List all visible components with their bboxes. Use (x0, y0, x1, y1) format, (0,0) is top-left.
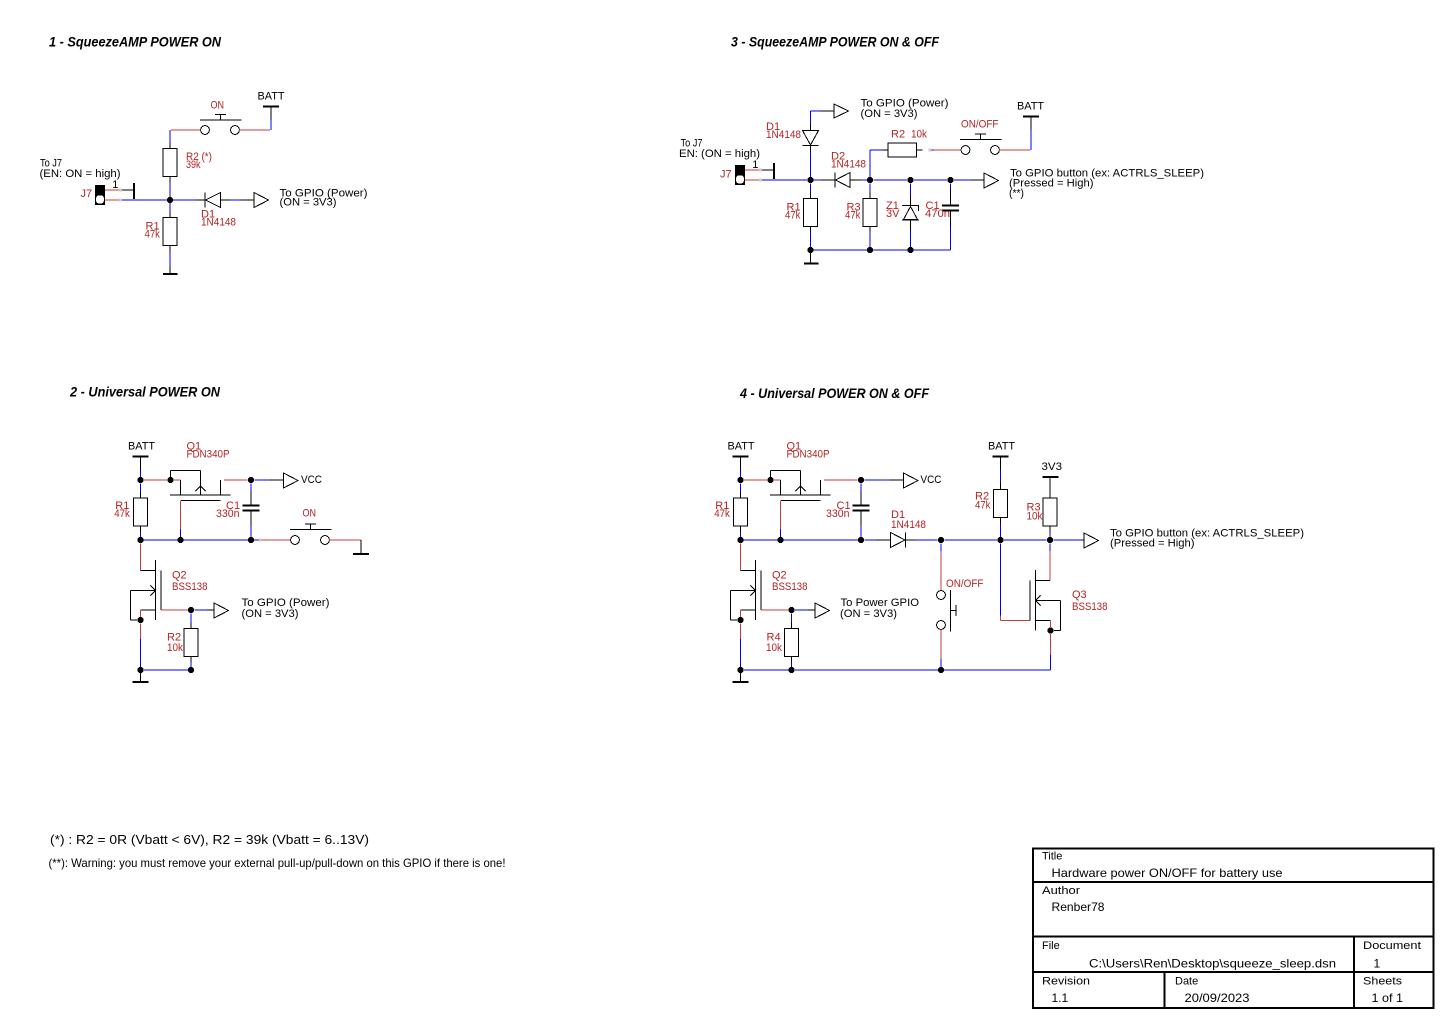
svg-text:470n: 470n (925, 208, 950, 220)
pushbutton ON/OFF (circuit 4) (937, 590, 956, 632)
svg-text:1N4148: 1N4148 (891, 519, 926, 531)
junction gate node (circuit 2) (167, 477, 173, 483)
wire R2 node down to Q3 gate (1001, 544, 1031, 621)
svg-text:FDN340P: FDN340P (187, 449, 230, 461)
node bottom left (circuit 4) (737, 667, 743, 673)
svg-text:1.1: 1.1 (1052, 991, 1069, 1005)
svg-text:BATT: BATT (258, 91, 285, 103)
node bottom (circuit 2) (137, 667, 143, 673)
label D1 (201, 209, 236, 229)
svg-text:1 of 1: 1 of 1 (1372, 991, 1404, 1005)
label D1 (circuit 3) (766, 121, 801, 141)
svg-text:1N4148: 1N4148 (766, 129, 801, 141)
wire Q1 source down to rail (180, 501, 182, 538)
connector J7 (circuit 3) (735, 165, 745, 185)
ground rail (circuit 3) (807, 247, 950, 253)
svg-text:VCC: VCC (301, 474, 322, 486)
svg-text:47k: 47k (714, 508, 730, 520)
pin 1 of J7 (105, 179, 134, 199)
svg-text:(**): (**) (1009, 188, 1024, 200)
label R2 (*) (186, 151, 212, 171)
wire node C to Z1 (910, 184, 912, 206)
wire node to R1 (169, 203, 171, 212)
pushbutton ON SW1 (171, 115, 270, 135)
svg-text:Sheets: Sheets (1363, 975, 1403, 987)
power BATT right (circuit 4) (988, 441, 1015, 483)
junction gate node (circuit 4) (767, 477, 773, 483)
resistor R4 (circuit 4) (785, 623, 799, 663)
pin 2 of J7 (circuit 3) (745, 179, 762, 182)
output port To GPIO (circuit 1) (254, 187, 368, 208)
transistor Q3 BSS138 (circuit 4) (1030, 570, 1061, 631)
svg-text:VCC: VCC (921, 474, 942, 486)
svg-text:2 - Universal POWER ON: 2 - Universal POWER ON (69, 383, 221, 399)
title block Title row (1042, 850, 1283, 880)
power BATT left (circuit 4) (728, 441, 755, 477)
resistor R1 (circuit 1) (163, 212, 177, 252)
bus wire right (circuit 4) (1004, 539, 1047, 541)
wire R3 to bus (circuit 4) (1049, 532, 1051, 537)
node R2 bottom (circuit 4) (997, 537, 1003, 543)
label R3 10k (circuit 4) (1027, 501, 1043, 522)
svg-text:Q2: Q2 (772, 569, 787, 581)
wire rail to Q2 gate (140, 544, 142, 571)
resistor R2 (163, 143, 177, 183)
wire Q3 source to bottom rail (1050, 634, 1052, 670)
node BATT (circuit 4) (737, 477, 743, 483)
wire output node to R2 (circuit 2) (190, 614, 192, 623)
resistor R2 (circuit 4) (994, 483, 1008, 537)
svg-text:47k: 47k (114, 508, 130, 520)
wire Q1 source down to bus (circuit 4) (780, 501, 782, 538)
svg-text:EN: (ON = high): EN: (ON = high) (679, 148, 760, 160)
svg-text:BSS138: BSS138 (772, 581, 808, 593)
wire C1 to rail (950, 212, 952, 251)
wire node B to node C (874, 179, 908, 181)
label R1 (circuit 4) (714, 500, 730, 520)
label R4 10k (circuit 4) (766, 632, 782, 655)
svg-text:10k: 10k (766, 642, 782, 654)
wire node A to D2 (814, 179, 836, 181)
note (*) resistor values (50, 832, 369, 847)
svg-text:20/09/2023: 20/09/2023 (1185, 991, 1250, 1005)
wire C1 to rail (circuit 2) (250, 512, 252, 538)
node Q2 source (circuit 2) (137, 617, 143, 623)
svg-text:1: 1 (112, 179, 118, 191)
svg-text:47k: 47k (145, 229, 161, 241)
label To J7 (40, 158, 121, 181)
node C (907, 177, 913, 183)
svg-text:330n: 330n (826, 508, 850, 520)
connector J7 (95, 185, 105, 205)
wire J7 to node A (762, 179, 807, 181)
capacitor C1 (circuit 2) (243, 506, 260, 511)
pushbutton ON (circuit 2) (262, 524, 362, 544)
svg-text:(EN: ON = high): (EN: ON = high) (40, 168, 121, 180)
wire VCC node to D1 (circuit 4) (865, 539, 891, 541)
svg-text:To GPIO (Power): To GPIO (Power) (242, 597, 330, 609)
title block Author row (1042, 885, 1105, 914)
diode D2 (835, 173, 850, 188)
svg-text:(*) : R2 = 0R (Vbatt < 6V), R2: (*) : R2 = 0R (Vbatt < 6V), R2 = 39k (Vb… (50, 832, 369, 847)
svg-text:J7: J7 (81, 188, 93, 200)
node output (circuit 2) (188, 607, 194, 613)
svg-text:Document: Document (1363, 940, 1421, 952)
pin 2 of J7 (105, 199, 122, 202)
wire R2 to node (169, 183, 171, 201)
power BATT (circuit 2) (128, 441, 155, 477)
label C1 330n (circuit 2) (216, 500, 240, 520)
wire R4 to bottom rail (circuit 4) (744, 663, 795, 674)
svg-text:Author: Author (1042, 885, 1080, 897)
svg-text:BSS138: BSS138 (172, 581, 208, 593)
resistor R2 (circuit 3) (882, 143, 923, 157)
label R2 10k (891, 129, 927, 141)
svg-text:File: File (1042, 940, 1060, 952)
output port To GPIO Power (circuit 3) (834, 98, 949, 120)
wire node D to C1 (950, 184, 952, 205)
zener diode Z1 (902, 206, 919, 221)
svg-text:R2: R2 (891, 129, 905, 141)
ground (circuit 1) (163, 273, 178, 275)
capacitor C1 (circuit 3) (942, 206, 959, 211)
svg-text:330n: 330n (216, 508, 240, 520)
label J7 (circuit 3) (720, 168, 732, 180)
svg-text:1N4148: 1N4148 (831, 159, 866, 171)
wire R1 to rail (circuit 3) (810, 233, 812, 251)
pin 1 of J7 (circuit 3) (745, 159, 774, 179)
wire node C to node D (914, 179, 947, 181)
wire node B to R3 (869, 184, 871, 193)
label To J7 (circuit 3) (679, 137, 760, 160)
label ON/OFF (circuit 3) (961, 119, 999, 131)
wire Q1 drain to VCC node (circuit 4) (824, 479, 858, 481)
heading circuit 2 (69, 383, 221, 399)
ground (circuit 4) (733, 673, 749, 682)
svg-text:C:\Users\Ren\Desktop\squeeze_s: C:\Users\Ren\Desktop\squeeze_sleep.dsn (1089, 957, 1336, 971)
svg-text:47k: 47k (785, 210, 801, 222)
node output (circuit 4) (788, 607, 794, 613)
label C1 470n (925, 200, 950, 220)
wire Q2 source to bottom rail (circuit 4) (740, 624, 742, 668)
wire D2 to node B (850, 179, 867, 181)
label R1 (circuit 3) (785, 202, 801, 222)
heading circuit 1 (49, 33, 222, 49)
svg-text:BSS138: BSS138 (1072, 601, 1108, 613)
wire R1 to bus (circuit 4) (740, 532, 742, 537)
svg-text:10k: 10k (1027, 511, 1043, 523)
svg-text:BATT: BATT (988, 441, 1015, 453)
wire BATT to Q1 (144, 479, 167, 481)
svg-text:39k: 39k (186, 159, 201, 171)
svg-text:(**): Warning: you must remove: (**): Warning: you must remove your exte… (49, 856, 506, 870)
label R2 10k (circuit 2) (167, 632, 183, 655)
svg-text:1: 1 (1374, 957, 1381, 971)
svg-text:10k: 10k (167, 642, 183, 654)
wire R1 to rail (circuit 2) (140, 532, 142, 537)
wire D1 to node A (810, 146, 812, 178)
svg-text:3V3: 3V3 (1042, 461, 1063, 473)
svg-text:ON: ON (303, 507, 317, 519)
power BATT (circuit 3) (1017, 101, 1044, 150)
svg-text:BATT: BATT (728, 441, 755, 453)
node Q2 source (circuit 4) (737, 617, 743, 623)
node Q3 source (circuit 4) (1047, 627, 1053, 633)
svg-text:47k: 47k (975, 500, 991, 512)
transistor Q2 BSS138 (circuit 4) (731, 560, 762, 620)
label Q3 (circuit 4) (1072, 589, 1108, 613)
transistor Q2 BSS138 (circuit 2) (131, 560, 162, 620)
wire R2 to switch (929, 149, 934, 152)
label ON (circuit 2) (303, 507, 317, 519)
label R1 (145, 221, 161, 241)
wire R3 node down to Q3 (1049, 544, 1051, 581)
svg-text:(ON = 3V3): (ON = 3V3) (840, 608, 897, 620)
bottom rail (circuit 4) (795, 667, 1051, 673)
label R1 (circuit 2) (114, 500, 130, 520)
wire J7 to node (122, 199, 167, 201)
title block frame (1033, 849, 1434, 1009)
svg-text:Date: Date (1175, 975, 1198, 987)
svg-text:(ON = 3V3): (ON = 3V3) (280, 196, 337, 208)
note (**) warning (49, 856, 506, 870)
svg-text:Q2: Q2 (172, 569, 187, 581)
resistor R3 (863, 193, 877, 233)
wire VCC node to C1 (circuit 2) (250, 484, 252, 505)
svg-text:Title: Title (1042, 850, 1062, 862)
pushbutton ON/OFF (circuit 3) (934, 134, 1031, 154)
resistor R2 (circuit 2) (184, 623, 198, 663)
svg-text:J7: J7 (720, 168, 732, 180)
wire C1 to bus (circuit 4) (860, 512, 862, 538)
svg-text:1: 1 (752, 159, 758, 171)
wire BATT to Q1 (circuit 4) (744, 479, 767, 481)
svg-text:(ON = 3V3): (ON = 3V3) (861, 108, 918, 120)
power 3V3 (circuit 4) (1042, 461, 1063, 492)
transistor Q1 FDN340P (circuit 2) (170, 471, 231, 501)
wire Q1 drain to VCC node (224, 479, 248, 481)
power BATT (circuit 1) (258, 91, 285, 130)
wire switch node down (circuit 4) (940, 544, 942, 591)
svg-text:Renber78: Renber78 (1052, 900, 1105, 914)
transistor Q1 FDN340P (circuit 4) (770, 471, 831, 501)
output port To Power GPIO (circuit 4) (795, 597, 919, 620)
wire Z1 to rail (910, 220, 912, 250)
wire switch to bottom rail (circuit 4) (940, 629, 942, 667)
output port VCC (circuit 2) (255, 473, 323, 488)
output port VCC (circuit 4) (865, 473, 942, 488)
ground (circuit 2) (133, 673, 149, 682)
label Q2 (circuit 2) (172, 569, 208, 592)
svg-text:1 - SqueezeAMP POWER ON: 1 - SqueezeAMP POWER ON (49, 33, 222, 49)
svg-text:ON/OFF: ON/OFF (946, 578, 984, 590)
resistor R1 (circuit 4) (734, 484, 748, 533)
svg-text:ON: ON (211, 99, 225, 111)
wire Q2 drain to output node (circuit 4) (761, 609, 788, 611)
title block File row (1042, 940, 1421, 971)
node R3 bottom (circuit 4) (1047, 537, 1053, 543)
label Q1 (circuit 2) (187, 441, 230, 461)
svg-text:Hardware power ON/OFF for batt: Hardware power ON/OFF for battery use (1052, 866, 1283, 880)
svg-text:47k: 47k (845, 210, 861, 222)
wire node to D1 (173, 199, 205, 201)
label D2 (831, 151, 866, 171)
node BATT (circuit 2) (137, 477, 143, 483)
label R2 47k (circuit 4) (975, 491, 991, 512)
wire output node to R4 (circuit 4) (791, 614, 793, 623)
wire R1 to ground (169, 252, 171, 274)
wire D1 to switch node (circuit 4) (906, 539, 938, 541)
svg-text:3V: 3V (886, 208, 900, 220)
label C1 330n (circuit 4) (826, 500, 851, 520)
wire port to D1 (811, 111, 835, 131)
wire rail to switch (circuit 2) (259, 539, 262, 542)
wire node B up to R2 (870, 150, 882, 177)
ground (circuit 3) (804, 253, 819, 264)
svg-text:Q3: Q3 (1072, 589, 1087, 601)
junction node (circuit 1) (167, 197, 173, 203)
heading circuit 4 (739, 385, 929, 401)
title block Revision row (1042, 975, 1403, 1005)
bus wire middle (circuit 4) (945, 539, 998, 541)
node switch top (circuit 4) (938, 537, 944, 543)
label Q1 (circuit 4) (787, 441, 830, 461)
svg-text:1N4148: 1N4148 (201, 217, 236, 229)
label D1 (circuit 4) (891, 509, 926, 531)
label J7 (81, 188, 93, 200)
output port To GPIO button (circuit 4) (1054, 527, 1305, 549)
capacitor C1 (circuit 4) (853, 506, 870, 511)
svg-text:Revision: Revision (1042, 975, 1090, 987)
wire Q2 source to bottom rail (140, 624, 142, 668)
label Z1 3V (886, 200, 900, 220)
svg-text:(Pressed = High): (Pressed = High) (1110, 537, 1195, 549)
resistor R3 (circuit 4) (1043, 492, 1057, 532)
wire R3 to rail (869, 233, 871, 251)
output port To GPIO button (circuit 3) (984, 167, 1204, 199)
node VCC (circuit 2) (248, 477, 254, 483)
wire VCC node to C1 (circuit 4) (860, 484, 862, 505)
wire gate node to Q1 source (174, 479, 181, 481)
diode D1 (circuit 3) (803, 131, 819, 146)
svg-text:FDN340P: FDN340P (787, 449, 830, 461)
wire R2 to bottom rail (circuit 2) (144, 663, 194, 674)
label Q2 (circuit 4) (772, 569, 808, 592)
label ON (211, 99, 225, 111)
heading circuit 3 (731, 33, 939, 49)
resistor R1 (circuit 2) (134, 484, 148, 533)
node D (947, 177, 953, 183)
wire gate node to Q1 source (circuit 4) (774, 479, 781, 481)
rail wire (circuit 2) (137, 537, 259, 543)
svg-text:ON/OFF: ON/OFF (961, 119, 999, 131)
svg-text:BATT: BATT (128, 441, 155, 453)
svg-text:3 - SqueezeAMP POWER ON & OFF: 3 - SqueezeAMP POWER ON & OFF (731, 33, 939, 49)
bus wire left (circuit 4) (737, 537, 864, 543)
svg-text:BATT: BATT (1017, 101, 1044, 113)
node VCC (circuit 4) (858, 477, 864, 483)
svg-text:10k: 10k (911, 129, 927, 141)
output port To GPIO Power (circuit 2) (195, 597, 330, 620)
svg-text:4 - Universal POWER ON & OFF: 4 - Universal POWER ON & OFF (739, 385, 929, 401)
wire Q2 drain to output node (161, 609, 188, 611)
label ON/OFF (circuit 4) (946, 578, 984, 590)
wire D1 to port (221, 199, 255, 201)
label R3 (845, 202, 861, 222)
node B (867, 177, 873, 183)
wire rail to Q2 gate (circuit 4) (740, 544, 742, 571)
diode D1 (circuit 4) (891, 533, 906, 548)
resistor R1 (circuit 3) (804, 193, 818, 233)
wire node A to R1 (810, 184, 812, 193)
node A (807, 177, 813, 183)
wire node D to port (954, 179, 984, 181)
svg-text:(ON = 3V3): (ON = 3V3) (242, 608, 299, 620)
diode D1 (205, 193, 221, 208)
wire switch to R2 (169, 130, 171, 143)
switch ground stub (circuit 2) (353, 540, 369, 554)
